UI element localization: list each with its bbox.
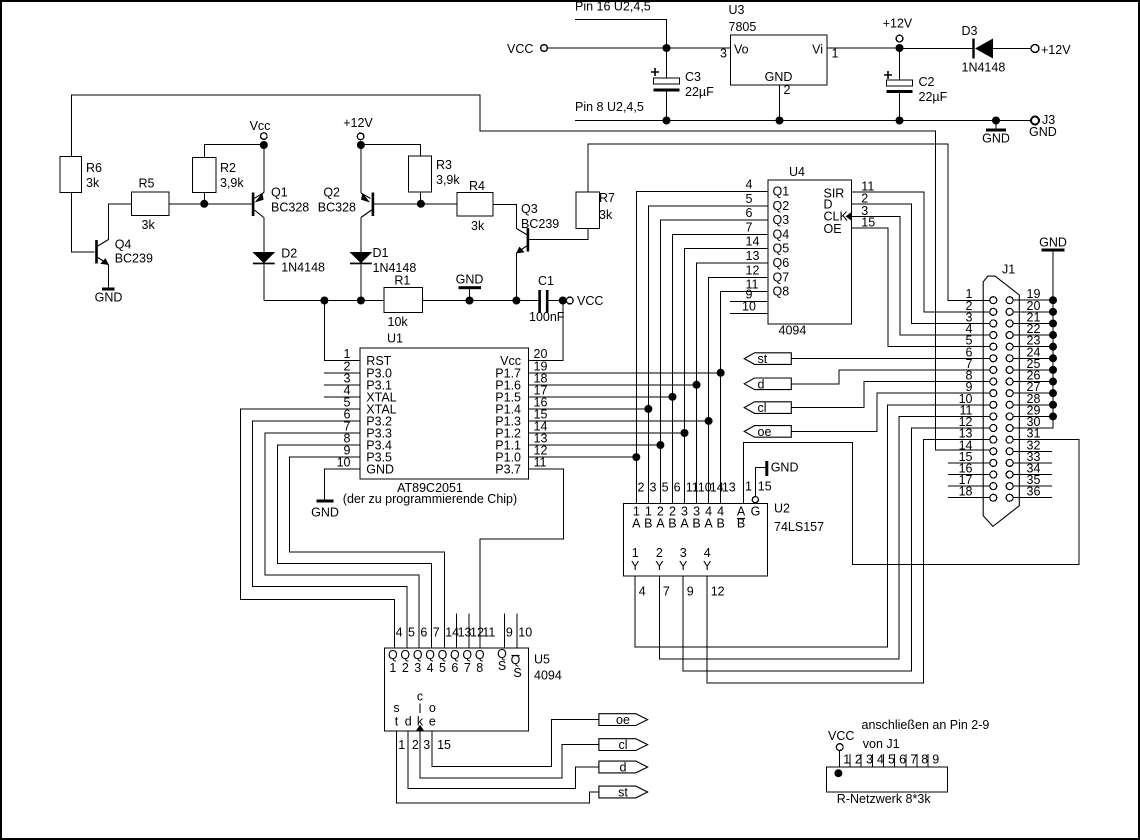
svg-text:anschließen an Pin 2-9: anschließen an Pin 2-9 <box>862 718 990 732</box>
junction J1 pin28 GND <box>1049 401 1057 409</box>
svg-text:D3: D3 <box>962 24 978 38</box>
wire flag st to J1 pin6 <box>791 357 990 359</box>
svg-text:22µF: 22µF <box>919 90 948 104</box>
pin circle 8 J1 <box>990 378 997 385</box>
pin circle 31 J1 <box>1006 436 1013 443</box>
net flag cl upper <box>744 401 791 415</box>
svg-text:C2: C2 <box>919 75 935 89</box>
svg-text:Y: Y <box>679 559 688 573</box>
wire R3 bottom <box>419 192 421 204</box>
svg-text:Q4: Q4 <box>773 227 790 241</box>
svg-text:t: t <box>395 715 399 729</box>
svg-text:4094: 4094 <box>779 324 807 338</box>
wire J1 pin18 stub <box>948 497 990 499</box>
wire U1 pin8 to U5 Q4 <box>277 445 431 648</box>
wire U2 4Y to J1 pin13 <box>707 440 990 684</box>
svg-text:36: 36 <box>1027 485 1041 499</box>
pin circle 6 J1 <box>990 355 997 362</box>
svg-text:1N4148: 1N4148 <box>281 261 325 275</box>
pin circle 28 J1 <box>1006 401 1013 408</box>
svg-text:VCC: VCC <box>507 42 533 56</box>
pin circle 32 J1 <box>1006 448 1013 455</box>
svg-text:GND: GND <box>1039 236 1067 250</box>
svg-text:Q: Q <box>400 648 410 662</box>
pin circle 13 J1 <box>990 436 997 443</box>
svg-text:2: 2 <box>402 661 409 675</box>
junction J1 pin25 GND <box>1049 366 1057 374</box>
svg-text:GND: GND <box>982 132 1010 146</box>
wire U5 Q7 stub <box>468 614 470 648</box>
svg-text:U4: U4 <box>789 165 805 179</box>
svg-text:Vo: Vo <box>734 43 749 57</box>
svg-text:GND: GND <box>95 291 123 305</box>
svg-text:U5: U5 <box>534 653 550 667</box>
wire U1 P1.3 to bus <box>529 420 709 422</box>
svg-text:R2: R2 <box>220 161 236 175</box>
terminal VCC Rnet <box>836 744 843 751</box>
svg-text:5: 5 <box>439 661 446 675</box>
svg-text:Y: Y <box>655 559 664 573</box>
pin tick 3 R network <box>860 754 862 767</box>
wire U1 pin2 stub <box>324 372 360 374</box>
junction P1.7 bus <box>717 369 725 377</box>
junction P1.5 bus <box>668 393 676 401</box>
svg-text:VCC: VCC <box>828 729 854 743</box>
pin circle 25 J1 <box>1006 366 1013 373</box>
wire U1 P1.0 to bus <box>529 456 637 458</box>
svg-text:1N4148: 1N4148 <box>962 61 1006 75</box>
wire U2 2Y to J1 pin11 <box>659 416 989 659</box>
svg-text:9: 9 <box>687 585 694 599</box>
ground symbol U2 <box>755 461 798 497</box>
wire U1 pin1 RST <box>324 301 360 361</box>
resistor R4 <box>457 193 493 217</box>
svg-text:cl: cl <box>618 738 627 752</box>
net flag st upper <box>744 352 791 366</box>
wire J1 pin26 to GND <box>1013 381 1053 383</box>
pin tick 6 R network <box>894 754 896 767</box>
svg-text:Q: Q <box>438 648 448 662</box>
wire RST rail left <box>264 300 384 302</box>
ground symbol U1 <box>311 500 339 520</box>
svg-text:C1: C1 <box>538 274 554 288</box>
wire flag d to J1 pin7 <box>791 370 990 384</box>
wire U1 pin5 to U5 Q1 <box>241 409 395 648</box>
svg-text:Q1: Q1 <box>773 185 790 199</box>
svg-text:7: 7 <box>663 585 670 599</box>
pin circle 10 J1 <box>990 401 997 408</box>
junction J1 pin27 GND <box>1049 389 1057 397</box>
svg-text:7: 7 <box>910 753 917 767</box>
net flag cl lower <box>599 738 648 752</box>
svg-text:o: o <box>429 701 436 715</box>
resistor R6 <box>60 157 82 193</box>
wire U2 pin1 to J1 pin31 <box>744 440 1080 565</box>
svg-text:B: B <box>692 517 700 531</box>
wire flag cl to J1 pin8 <box>791 382 990 408</box>
svg-text:3,9k: 3,9k <box>220 176 244 190</box>
svg-text:oe: oe <box>758 425 772 439</box>
svg-text:GND: GND <box>1029 125 1057 139</box>
junction rail GND sym <box>992 117 1000 125</box>
svg-text:Q: Q <box>475 648 485 662</box>
wire J1 pin17 stub <box>948 485 990 487</box>
wire U4 Q6 to bus <box>697 263 768 504</box>
junction P1.1 bus <box>656 441 664 449</box>
svg-text:7: 7 <box>433 626 440 640</box>
wire U2 3Y to J1 pin12 <box>683 428 990 671</box>
net flag d lower <box>599 761 648 775</box>
svg-text:A: A <box>704 517 713 531</box>
svg-text:R5: R5 <box>139 177 155 191</box>
wire J1 pin36 stub <box>1013 497 1052 499</box>
svg-text:4: 4 <box>704 546 711 560</box>
resistor R1 <box>384 288 423 313</box>
wire U1 pin7 to U5 Q3 <box>265 433 419 648</box>
wire J1 GND bus <box>1013 252 1053 429</box>
svg-text:U1: U1 <box>387 331 403 345</box>
pin circle 15 J1 <box>990 459 997 466</box>
wire U5 Q6 stub <box>455 614 457 648</box>
wire Q3 base to R7 <box>529 229 588 240</box>
wire U4 Q5 to bus <box>685 249 769 504</box>
svg-text:S: S <box>513 666 521 680</box>
svg-text:15: 15 <box>437 738 451 752</box>
IC U2 74LS157 <box>624 504 768 577</box>
svg-text:BC328: BC328 <box>271 201 309 215</box>
svg-text:8: 8 <box>921 753 928 767</box>
pin circle 17 J1 <box>990 483 997 490</box>
svg-text:2: 2 <box>784 83 791 97</box>
wire J1 pin15 stub <box>948 462 990 464</box>
wire U4 pin10 stub <box>730 313 768 315</box>
pin circle 27 J1 <box>1006 390 1013 397</box>
junction J1 pin26 GND <box>1049 378 1057 386</box>
junction J1 pin20 GND <box>1049 308 1057 316</box>
wire U1 P1.1 to bus <box>529 444 661 446</box>
junction +12V/C2 <box>896 44 904 52</box>
wire U1 P1.4 to bus <box>529 408 649 410</box>
wire J1 pin28 to GND <box>1013 404 1053 406</box>
pin tick 2 R network <box>849 754 851 767</box>
transistor Q3 <box>516 228 529 254</box>
junction rail C2 <box>896 117 904 125</box>
svg-text:GND: GND <box>456 273 484 287</box>
wire U1 pin3 stub <box>324 384 360 386</box>
junction J1 pin23 GND <box>1049 343 1057 351</box>
wire U1 P1.6 to bus <box>529 384 697 386</box>
wire U1 pin6 to U5 Q2 <box>253 421 407 648</box>
ground symbol mid rail <box>456 273 484 301</box>
junction R2/R5 base node <box>200 200 208 208</box>
net flag st lower <box>599 786 648 800</box>
svg-text:3k: 3k <box>599 208 613 222</box>
svg-text:Q5: Q5 <box>773 242 790 256</box>
junction P1.2 bus <box>681 429 689 437</box>
svg-text:14: 14 <box>746 235 760 249</box>
junction J1 pin19 GND <box>1049 296 1057 304</box>
svg-text:A: A <box>656 517 665 531</box>
svg-text:6: 6 <box>420 626 427 640</box>
svg-text:A: A <box>680 517 689 531</box>
wire U4 SIR to J1 pin2 <box>852 192 990 312</box>
svg-text:Q7: Q7 <box>773 270 790 284</box>
wire U5 pin1 to flag st <box>396 731 599 803</box>
wire U4 D to J1 pin3 <box>852 204 990 323</box>
svg-text:+12V: +12V <box>343 116 373 130</box>
svg-text:6: 6 <box>899 753 906 767</box>
svg-text:Q: Q <box>450 648 460 662</box>
svg-text:100nF: 100nF <box>529 310 565 324</box>
svg-text:3: 3 <box>720 47 727 61</box>
pin circle 12 J1 <box>990 425 997 432</box>
svg-text:3: 3 <box>680 546 687 560</box>
svg-text:B: B <box>668 517 676 531</box>
svg-text:6: 6 <box>451 661 458 675</box>
svg-text:4: 4 <box>746 178 753 192</box>
net flag oe upper <box>744 425 791 439</box>
resistor R7 <box>576 192 600 229</box>
svg-text:2: 2 <box>412 738 419 752</box>
wire U4 Q1 to bus <box>636 192 768 504</box>
svg-text:3: 3 <box>866 753 873 767</box>
net flag d upper <box>744 377 791 391</box>
svg-text:3,9k: 3,9k <box>436 173 460 187</box>
svg-text:Vi: Vi <box>812 43 823 57</box>
wire Q1 collector to D2 <box>263 218 265 253</box>
svg-text:B: B <box>644 517 652 531</box>
svg-text:R6: R6 <box>86 161 102 175</box>
junction J1 pin22 GND <box>1049 331 1057 339</box>
svg-text:3: 3 <box>650 481 657 495</box>
wire VCC to R network <box>839 751 841 774</box>
wire net B (R7 to J1 pin1) <box>588 144 990 301</box>
pin circle 18 J1 <box>990 494 997 501</box>
svg-text:Y: Y <box>631 559 640 573</box>
pin circle 33 J1 <box>1006 459 1013 466</box>
svg-text:6: 6 <box>746 206 753 220</box>
svg-text:Q2: Q2 <box>323 186 340 200</box>
pin circle 14 J1 <box>990 448 997 455</box>
pin circle 30 J1 <box>1006 425 1013 432</box>
pin circle 4 J1 <box>990 332 997 339</box>
inversion bubble U2 pin15 <box>752 497 758 503</box>
svg-text:GND: GND <box>765 70 793 84</box>
ground symbol Q4 <box>95 288 123 305</box>
wire U3 to +12V node <box>827 47 900 49</box>
svg-text:10: 10 <box>518 626 532 640</box>
wire J1 pin24 to GND <box>1013 357 1053 359</box>
connector J1 body <box>983 276 1019 526</box>
pin circle 34 J1 <box>1006 471 1013 478</box>
svg-text:13: 13 <box>746 249 760 263</box>
junction P1.4 bus <box>644 405 652 413</box>
svg-text:2: 2 <box>638 481 645 495</box>
wire U4 Q3 to bus <box>660 220 768 503</box>
wire J1 pin16 stub <box>948 474 990 476</box>
junction P1.3 bus <box>705 417 713 425</box>
pin circle 21 J1 <box>1006 320 1013 327</box>
svg-text:10: 10 <box>742 300 756 314</box>
ground symbol right rail <box>982 121 1010 146</box>
wire U4 Q4 to bus <box>672 234 768 503</box>
wire U1 P1.7 to bus <box>529 372 721 374</box>
pin circle 16 J1 <box>990 471 997 478</box>
svg-text:4: 4 <box>877 753 884 767</box>
svg-text:st: st <box>758 352 768 366</box>
svg-text:(der zu programmierende Chip): (der zu programmierende Chip) <box>343 492 517 506</box>
regulator U3 7805 <box>731 35 828 85</box>
svg-text:Q4: Q4 <box>115 237 132 251</box>
svg-text:1: 1 <box>745 480 752 494</box>
svg-text:cl: cl <box>758 401 767 415</box>
svg-text:+12V: +12V <box>883 17 913 31</box>
wire U3 GND pin <box>779 85 781 121</box>
wire GND rail top <box>575 120 1031 122</box>
svg-text:s: s <box>393 701 399 715</box>
junction rail Q3 emitter <box>512 297 520 305</box>
pin tick 8 R network <box>916 754 918 767</box>
svg-text:7: 7 <box>464 661 471 675</box>
svg-text:D1: D1 <box>373 246 389 260</box>
wire U4 pin9 stub <box>730 301 768 303</box>
capacitor C1 <box>538 290 566 313</box>
svg-text:5: 5 <box>408 626 415 640</box>
wire J1 pin22 to GND <box>1013 334 1053 336</box>
resistor network R-Netzwerk <box>827 767 948 792</box>
svg-text:1: 1 <box>832 47 839 61</box>
svg-text:BC328: BC328 <box>318 201 356 215</box>
ground symbol J1 <box>1039 236 1067 252</box>
svg-text:BC239: BC239 <box>521 217 559 231</box>
capacitor C3 <box>651 48 680 121</box>
svg-text:st: st <box>618 786 628 800</box>
svg-text:11: 11 <box>534 456 547 470</box>
pin circle 20 J1 <box>1006 308 1013 315</box>
IC U4 4094 <box>768 180 852 324</box>
svg-text:G: G <box>751 505 761 519</box>
svg-text:Q3: Q3 <box>521 202 538 216</box>
pin circle 22 J1 <box>1006 332 1013 339</box>
wire +12V to R3 top <box>361 145 421 156</box>
wire J1 pin29 to GND <box>1013 415 1053 417</box>
pin circle 26 J1 <box>1006 378 1013 385</box>
terminal +12V Q2 <box>357 133 364 140</box>
svg-text:12: 12 <box>711 585 725 599</box>
wire R2 top to Vcc node <box>204 145 264 158</box>
svg-text:BC239: BC239 <box>115 252 153 266</box>
resistor R5 <box>132 192 170 216</box>
pin circle 24 J1 <box>1006 355 1013 362</box>
wire flag oe to J1 pin9 <box>791 393 990 431</box>
terminal Vcc Q1 <box>261 133 268 140</box>
pin circle 29 J1 <box>1006 413 1013 420</box>
junction U3 GND rail <box>776 117 784 125</box>
svg-text:S: S <box>498 659 506 673</box>
wire U1 P1.2 to bus <box>529 432 685 434</box>
pin circle 11 J1 <box>990 413 997 420</box>
svg-text:5: 5 <box>662 481 669 495</box>
svg-text:4: 4 <box>427 661 434 675</box>
junction R network pin1 <box>834 769 842 777</box>
junction R3/R4 base node <box>417 200 425 208</box>
wire net A (R6 to J1 pin14) <box>72 95 990 450</box>
svg-text:4: 4 <box>639 585 646 599</box>
svg-text:9: 9 <box>932 753 939 767</box>
wire R1 to C1 <box>423 300 539 302</box>
wire J1 pin20 to GND <box>1013 311 1053 313</box>
junction P1.6 bus <box>693 381 701 389</box>
pin circle 36 J1 <box>1006 494 1013 501</box>
svg-text:2: 2 <box>656 546 663 560</box>
wire R4 to Q3 collector <box>493 204 516 228</box>
terminal +12V node <box>896 35 903 42</box>
svg-text:74LS157: 74LS157 <box>774 520 824 534</box>
wire U5 pin2 to flag d <box>408 731 599 789</box>
svg-text:GND: GND <box>311 506 339 520</box>
svg-text:6: 6 <box>674 481 681 495</box>
svg-text:C3: C3 <box>685 70 701 84</box>
pin tick 4 R network <box>872 754 874 767</box>
wire U5 QS stub <box>504 614 506 648</box>
svg-text:18: 18 <box>959 485 973 499</box>
svg-text:Q6: Q6 <box>773 256 790 270</box>
wire U4 Q8 to bus <box>721 292 768 504</box>
svg-text:22µF: 22µF <box>685 85 714 99</box>
wire U5 pin3 to flag cl <box>420 731 599 778</box>
junction rail U1 Vcc <box>559 297 567 305</box>
svg-text:R7: R7 <box>599 191 615 205</box>
wire J1 pin19 to GND <box>1013 299 1053 301</box>
svg-text:13: 13 <box>722 481 736 495</box>
wire Q4 collector to R5 <box>109 204 132 240</box>
wire U1 pin9 to U5 Q5 <box>289 457 444 648</box>
wire J1 pin34 stub <box>1013 474 1052 476</box>
wire U2 1Y to J1 pin10 <box>635 405 990 647</box>
svg-text:d: d <box>620 761 627 775</box>
svg-text:7: 7 <box>746 220 753 234</box>
pin circle 19 J1 <box>1006 297 1013 304</box>
svg-text:von J1: von J1 <box>863 737 900 751</box>
wire Q4 emitter to ground <box>108 265 110 288</box>
svg-text:12: 12 <box>746 263 760 277</box>
IC U1 AT89C2051 <box>360 348 529 479</box>
wire R2 bottom <box>203 193 205 204</box>
wire U1 P1.5 to bus <box>529 396 673 398</box>
svg-text:Pin 16 U2,4,5: Pin 16 U2,4,5 <box>575 0 651 14</box>
wire U1 pin20 Vcc <box>529 301 563 361</box>
junction P1.0 bus <box>632 453 640 461</box>
svg-text:8: 8 <box>476 661 483 675</box>
svg-text:GND: GND <box>771 461 799 475</box>
svg-text:d: d <box>758 377 765 391</box>
net flag oe lower <box>599 713 648 727</box>
svg-text:10k: 10k <box>388 315 409 329</box>
wire U5 pin15 to flag oe <box>432 720 599 767</box>
pin circle 7 J1 <box>990 366 997 373</box>
terminal J3 <box>1031 117 1039 125</box>
svg-text:3k: 3k <box>471 219 485 233</box>
svg-text:Q: Q <box>388 648 398 662</box>
svg-text:3k: 3k <box>142 218 156 232</box>
junction rail GND <box>466 297 474 305</box>
wire U4 CLK to J1 pin4 <box>852 216 990 335</box>
junction J1 pin24 GND <box>1049 354 1057 362</box>
junction rail C3 <box>663 117 671 125</box>
svg-text:1: 1 <box>398 738 405 752</box>
svg-text:15: 15 <box>758 480 772 494</box>
svg-text:P3.7: P3.7 <box>495 463 521 477</box>
